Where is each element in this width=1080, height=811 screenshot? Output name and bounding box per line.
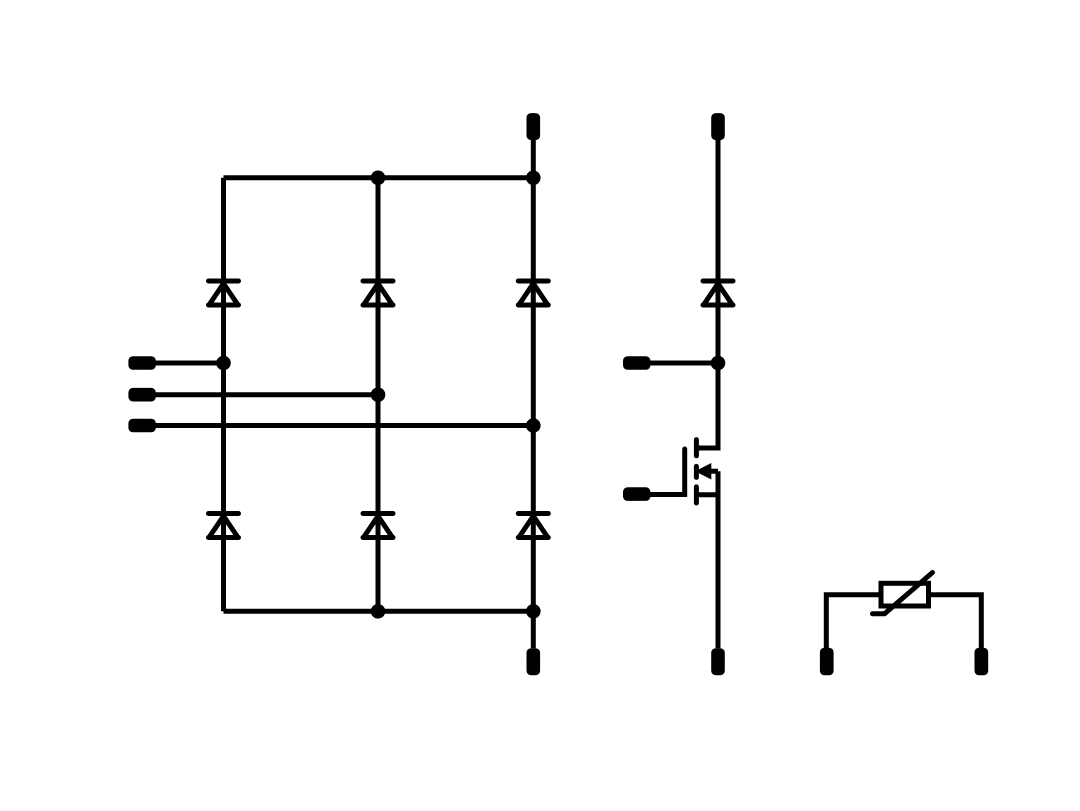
wire phase B leg (middle column)	[376, 178, 381, 612]
wire phase A leg (left column)	[221, 178, 226, 612]
diode D2 (bridge top-middle)	[363, 281, 393, 305]
wire mid node lead	[646, 361, 718, 366]
wire phase B input lead	[150, 392, 378, 397]
wire phase C leg (right column)	[531, 140, 536, 648]
terminal phase A	[128, 356, 155, 370]
junction phase C node	[526, 418, 541, 433]
terminal RT1 right	[975, 648, 989, 676]
terminal mid-branch bottom	[711, 648, 725, 675]
wire RT1 left lead	[826, 595, 878, 649]
junction bottom bus / phase B	[371, 604, 386, 619]
diode D1 (bridge top-left)	[209, 281, 239, 305]
transistor Q1 channel segment (drain)	[694, 440, 699, 456]
wire top bus (cathode rail)	[224, 175, 534, 180]
junction phase B node	[371, 387, 386, 402]
wire mid-branch drain riser	[697, 140, 719, 448]
diode D5 (bridge bottom-middle)	[363, 514, 393, 538]
terminal mid-branch top	[711, 113, 725, 140]
junction top bus / phase C	[526, 171, 541, 186]
wire RT1 right lead	[931, 595, 982, 649]
diode D3 (bridge top-right)	[518, 281, 548, 305]
junction mid node	[711, 356, 726, 371]
diode D4 (bridge bottom-left)	[209, 514, 239, 538]
wire bottom bus (anode rail)	[224, 609, 534, 614]
wire mid-branch source drop	[716, 471, 721, 648]
thermistor RT1 diagonal stroke	[873, 573, 933, 614]
terminal RT1 left	[820, 648, 834, 676]
junction bottom bus / phase C	[526, 604, 541, 619]
terminal DC+ (bridge top)	[527, 113, 541, 140]
diode D7 (mid branch)	[703, 281, 733, 305]
terminal mid node	[623, 356, 650, 370]
thermistor RT1 body	[881, 583, 929, 606]
transistor Q1 body arrow	[695, 463, 711, 480]
wire phase C input lead	[150, 423, 533, 428]
junction top bus / phase B	[371, 171, 386, 186]
terminal phase C	[128, 419, 155, 433]
wire Q1 body connection	[709, 469, 718, 474]
terminal phase B	[128, 388, 155, 402]
wire gate lead of Q1	[646, 449, 685, 495]
wire phase A input lead	[150, 361, 224, 366]
transistor Q1 channel segment (source)	[694, 487, 699, 503]
terminal bridge bottom	[527, 648, 541, 675]
junction phase A node	[216, 356, 231, 371]
transistor Q1 channel segment (body)	[694, 466, 699, 477]
diode D6 (bridge bottom-right)	[518, 514, 548, 538]
wire Q1 source connection	[696, 492, 718, 497]
terminal gate	[623, 487, 650, 501]
